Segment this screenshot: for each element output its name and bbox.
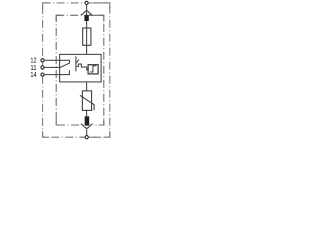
disconnecting device hat xyxy=(81,11,92,15)
wire terminal 11 to box xyxy=(44,66,59,68)
border top solid segment right of top terminal xyxy=(93,2,110,4)
terminal 11 circle xyxy=(41,66,44,69)
wire: varistor to lower disconnect xyxy=(86,111,88,117)
trip lever xyxy=(75,56,77,71)
contact NO feed 14 with tick xyxy=(60,70,70,74)
monitoring box with step symbol xyxy=(88,65,98,74)
contact moving arm from 11 pivot xyxy=(60,63,70,67)
outer border corner marks xyxy=(43,3,110,137)
contact NC feed 12 with tick xyxy=(60,60,70,63)
lower disconnect contact block (filled) xyxy=(85,116,90,125)
thermo-dynamic-control inner dash-dot box xyxy=(56,15,104,125)
wire terminal 12 to box xyxy=(44,59,59,61)
wire: box bottom to varistor xyxy=(86,82,88,91)
step symbol xyxy=(90,66,96,72)
terminal 14 circle xyxy=(41,73,44,76)
bottom terminal circle xyxy=(85,136,88,139)
device enclosure dash-dot border xyxy=(43,3,110,137)
fuse xyxy=(83,28,91,45)
varistor body xyxy=(82,91,91,111)
trip lever flag xyxy=(76,59,79,63)
disconnecting device contact block (filled) xyxy=(84,15,88,21)
lower disconnect cup xyxy=(81,124,93,128)
terminal 12 circle xyxy=(41,59,44,62)
wire: cup to bottom terminal xyxy=(86,128,88,135)
wire: conductor disconnect to fuse xyxy=(86,21,88,28)
mechanical crank linkage xyxy=(76,64,88,70)
svg-text:14: 14 xyxy=(30,71,36,79)
varistor diagonal with tail xyxy=(80,95,94,110)
top terminal circle xyxy=(85,1,88,4)
white patch under cup xyxy=(80,124,93,129)
inner border corner marks xyxy=(56,15,104,125)
border bottom solid segments near bottom terminal xyxy=(80,136,85,138)
wire terminal 14 to box xyxy=(44,74,59,76)
wire: main conductor top segment xyxy=(86,5,88,16)
wire: conductor fuse to contact box xyxy=(86,28,88,55)
signalling contact box xyxy=(60,54,102,82)
